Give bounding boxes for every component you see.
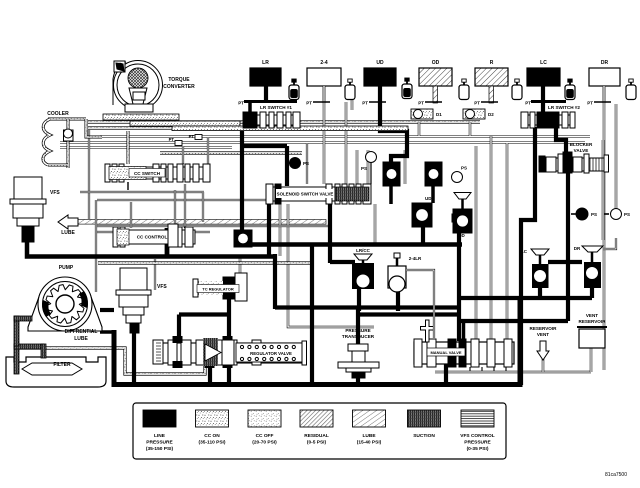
svg-text:2-4LR: 2-4LR <box>409 256 422 261</box>
svg-text:LUBE: LUBE <box>74 336 88 342</box>
svg-text:PT: PT <box>169 137 175 142</box>
svg-text:PT: PT <box>474 101 480 106</box>
svg-text:D2: D2 <box>488 112 494 117</box>
svg-text:DIFFRENTIAL: DIFFRENTIAL <box>65 329 98 335</box>
svg-text:PT: PT <box>418 101 424 106</box>
svg-text:PS: PS <box>624 212 630 217</box>
svg-text:LC: LC <box>540 60 547 66</box>
svg-text:81ca7500: 81ca7500 <box>605 472 627 478</box>
svg-text:PS: PS <box>303 161 309 166</box>
svg-text:(15-40 PSI): (15-40 PSI) <box>357 440 382 446</box>
svg-text:PT: PT <box>238 101 244 106</box>
svg-text:D1: D1 <box>436 112 442 117</box>
svg-text:SOLENOID SWITCH VALVE: SOLENOID SWITCH VALVE <box>277 192 334 197</box>
svg-text:LUBE: LUBE <box>61 230 75 236</box>
svg-text:UD: UD <box>425 196 432 201</box>
svg-text:FILTER: FILTER <box>53 362 71 368</box>
svg-text:CC SWITCH: CC SWITCH <box>134 171 161 176</box>
svg-text:PT: PT <box>525 101 531 106</box>
svg-text:VFS: VFS <box>50 190 60 196</box>
svg-text:DR: DR <box>601 60 609 66</box>
svg-text:VFS CONTROL: VFS CONTROL <box>460 433 494 439</box>
svg-text:PT: PT <box>189 134 195 139</box>
svg-text:PRESSURE: PRESSURE <box>146 440 173 446</box>
svg-text:PS: PS <box>461 166 467 171</box>
svg-text:VENT: VENT <box>537 332 549 337</box>
svg-text:LC: LC <box>521 249 528 254</box>
svg-text:LR SWITCH #1: LR SWITCH #1 <box>260 105 292 110</box>
svg-text:LR SWITCH #2: LR SWITCH #2 <box>548 105 580 110</box>
svg-text:TC REGULATOR: TC REGULATOR <box>202 287 234 292</box>
svg-text:VENT: VENT <box>586 313 598 318</box>
svg-text:SUCTION: SUCTION <box>413 433 435 439</box>
svg-text:RESERVOIR: RESERVOIR <box>579 319 607 324</box>
svg-text:PRESSURE: PRESSURE <box>345 328 370 333</box>
svg-text:(35-150 PSI): (35-150 PSI) <box>146 446 174 452</box>
svg-text:(0-35 PSI): (0-35 PSI) <box>467 446 489 452</box>
svg-text:TRANSDUCER: TRANSDUCER <box>342 334 375 339</box>
svg-text:TORQUE: TORQUE <box>168 77 190 83</box>
svg-text:DR: DR <box>574 246 581 251</box>
svg-text:LINE: LINE <box>154 433 166 439</box>
svg-text:LUBE: LUBE <box>362 433 376 439</box>
svg-text:LR/CC: LR/CC <box>356 248 370 253</box>
svg-text:(20-70 PSI): (20-70 PSI) <box>252 440 277 446</box>
svg-text:(35-110 PSI): (35-110 PSI) <box>199 440 226 446</box>
svg-text:OD: OD <box>458 233 466 238</box>
svg-text:VFS: VFS <box>157 284 167 290</box>
svg-text:R: R <box>490 60 494 66</box>
svg-text:CC CONTROL: CC CONTROL <box>137 235 168 240</box>
svg-text:REGULATOR VALVE: REGULATOR VALVE <box>250 351 292 356</box>
svg-text:PT: PT <box>362 101 368 106</box>
svg-text:PT: PT <box>587 101 593 106</box>
svg-text:RESERVOIR: RESERVOIR <box>530 326 558 331</box>
svg-text:PRESSURE: PRESSURE <box>464 440 491 446</box>
svg-text:VALVE: VALVE <box>574 148 589 153</box>
svg-text:BLOCKER: BLOCKER <box>570 142 593 147</box>
svg-text:UD: UD <box>376 60 384 66</box>
svg-text:OD: OD <box>432 60 440 66</box>
svg-text:COOLER: COOLER <box>47 111 69 117</box>
svg-text:CC ON: CC ON <box>204 433 220 439</box>
svg-text:PS: PS <box>361 166 367 171</box>
svg-text:CC OFF: CC OFF <box>256 433 274 439</box>
svg-text:PS: PS <box>591 212 597 217</box>
svg-text:MANUAL VALVE: MANUAL VALVE <box>430 350 461 355</box>
svg-text:LR: LR <box>262 60 269 66</box>
svg-text:RESIDUAL: RESIDUAL <box>304 433 329 439</box>
svg-text:PUMP: PUMP <box>59 265 74 271</box>
svg-text:PT: PT <box>306 101 312 106</box>
svg-text:CONVERTER: CONVERTER <box>163 84 195 90</box>
svg-text:(0-5 PSI): (0-5 PSI) <box>307 440 327 446</box>
svg-text:2-4: 2-4 <box>320 60 327 66</box>
